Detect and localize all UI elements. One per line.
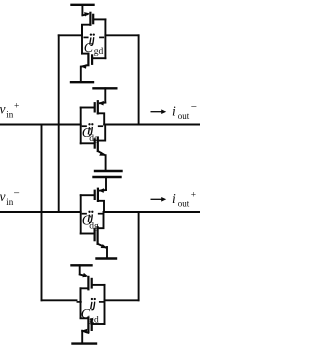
svg-text:gd: gd [89, 315, 99, 325]
wire block1 mid node right [105, 34, 138, 36]
node label noise-current Cgd block1 [84, 33, 104, 56]
transistor M2 channel [87, 54, 89, 66]
wire M4 source stem [105, 155, 107, 171]
svg-text:v: v [0, 189, 6, 204]
svg-text:C: C [84, 41, 94, 56]
transistor M6 channel [96, 227, 98, 244]
transistor M1 gate bar [92, 15, 94, 23]
transistor M6 source arrow [98, 244, 106, 248]
svg-text:out: out [178, 199, 190, 209]
transistor M4 source arrow [98, 151, 104, 155]
svg-text:i: i [172, 104, 176, 119]
label vin- [0, 188, 20, 208]
wire iout+ line [104, 211, 200, 213]
supply bar block1 [72, 4, 94, 6]
wire block1 left line (drain-drain) [81, 25, 83, 54]
node label noise-current Cdg block3 [82, 211, 99, 232]
label iout+ with arrow [151, 191, 197, 209]
wire M1 gate lead [94, 18, 105, 20]
wire block4 mid node left [42, 299, 77, 301]
transistor M7 source arrow [80, 275, 86, 276]
wire vin- line [0, 211, 81, 213]
wire M4 gate lead [81, 142, 95, 144]
wire M8 gate lead [93, 323, 105, 325]
transistor M6 gate bar [93, 229, 95, 240]
bar block3 top [94, 176, 121, 178]
transistor M3 gate bar [94, 103, 96, 111]
transistor M8 channel [87, 318, 89, 333]
rail A: block1 drains to vin- line [58, 35, 60, 212]
rail B: vin+ line down to block4 [41, 125, 43, 301]
transistor M2 source arrow [81, 65, 88, 67]
wire Cdg dashed path block2 [83, 125, 87, 127]
wire iout- line [104, 124, 200, 126]
wire M3 drain lead [98, 113, 104, 124]
wire M2 gate lead [92, 57, 105, 59]
bar block4 top [72, 264, 92, 266]
rail C: block1 gates to iout- line [138, 35, 140, 124]
wire M1 drain lead [82, 25, 90, 36]
transistor M5 gate bar [94, 191, 96, 199]
wire block3 gate line [80, 195, 82, 233]
svg-text:+: + [191, 191, 196, 201]
transistor M4 drain line [98, 125, 105, 141]
transistor M8 gate bar [91, 320, 93, 330]
wire M5 gate lead [81, 194, 95, 196]
transistor M1 source arrow [82, 14, 87, 15]
wire block4 left line [80, 288, 82, 318]
svg-text:+: + [14, 102, 19, 112]
wire M3 source stem [104, 88, 106, 102]
wire vin+ line [0, 124, 81, 126]
transistor M5 channel [97, 189, 99, 201]
label vin+ [0, 102, 19, 120]
transistor M3 channel [97, 101, 99, 113]
wire Cgd dashed path block4 [77, 301, 81, 303]
wire block4 right line [104, 285, 106, 324]
transistor M7 gate bar [91, 279, 93, 288]
supply bar block2 [94, 87, 117, 89]
wire block2 gate line [80, 108, 82, 144]
wire M5 drain lead [98, 201, 104, 212]
transistor M3 source arrow [100, 102, 106, 105]
transistor M8 source arrow [82, 331, 88, 333]
svg-text:−: − [191, 101, 197, 113]
svg-text:dg: dg [89, 134, 99, 144]
transistor M5 source arrow [100, 189, 106, 192]
wire Cgd dashed path block1 [84, 36, 87, 38]
wire M2 source stem [80, 67, 82, 82]
node label noise-current Cgd block4 [81, 298, 99, 325]
wire M8 source stem [81, 331, 83, 344]
svg-text:in: in [6, 110, 14, 120]
ground bar block4 [73, 342, 97, 344]
wire M6 gate lead [81, 233, 94, 235]
transistor M1 channel [89, 13, 91, 25]
transistor M6 drain line [98, 212, 104, 228]
rail D: iout+ line down to block4 [138, 212, 140, 300]
svg-text:−: − [14, 188, 20, 200]
wire M6 source stem [106, 247, 108, 259]
transistor M2 gate bar [91, 55, 93, 63]
wire M7 source stem [79, 265, 81, 274]
wire M7 gate lead [93, 284, 105, 286]
wire Cdg dashed path block3 [83, 213, 87, 215]
wire M5 source stem [105, 177, 107, 190]
svg-text:v: v [0, 102, 6, 117]
transistor M7 channel [87, 277, 89, 289]
svg-text:dg: dg [89, 221, 99, 231]
transistor M4 channel [97, 138, 99, 151]
bar block2 bottom [95, 170, 122, 172]
wire M7 drain lead [81, 288, 89, 300]
svg-text:gd: gd [94, 47, 104, 57]
svg-text:i: i [172, 191, 176, 206]
wire block1 right line (gate-gate) [104, 19, 106, 58]
transistor M4 gate bar [94, 139, 96, 147]
transistor M8 drain lead [81, 317, 89, 319]
wire block4 mid node right [105, 299, 139, 301]
bar block3 bottom [97, 257, 117, 259]
wire M3 gate lead [81, 107, 95, 109]
wire M1 source stem [81, 5, 83, 15]
label iout- with arrow [151, 101, 198, 121]
wire block1 mid node left [59, 34, 82, 36]
transistor M2 drain lead [82, 53, 88, 55]
svg-text:out: out [178, 111, 190, 121]
node label noise-current Cdg block2 [82, 123, 99, 144]
ground bar block1 [71, 81, 93, 83]
